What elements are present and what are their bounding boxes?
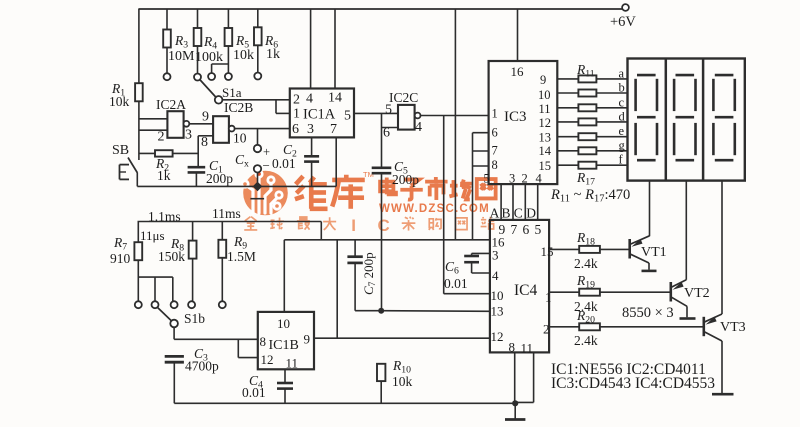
svg-text:10: 10 bbox=[277, 316, 290, 331]
svg-text:d: d bbox=[619, 109, 626, 123]
ground bbox=[680, 317, 696, 320]
wire bbox=[173, 327, 175, 339]
display DS1 (3-digit seven-segment) bbox=[628, 59, 745, 181]
svg-text:11μs: 11μs bbox=[140, 228, 165, 243]
resistor R9 bbox=[218, 222, 255, 265]
svg-text:Cx: Cx bbox=[235, 152, 249, 169]
svg-text:S1b: S1b bbox=[184, 311, 205, 326]
svg-text:910: 910 bbox=[110, 251, 131, 266]
node A bbox=[490, 206, 500, 221]
ground bbox=[712, 393, 734, 396]
svg-text:10: 10 bbox=[491, 288, 504, 303]
resistor R15 body bbox=[557, 133, 628, 140]
wire bbox=[221, 258, 223, 301]
svg-text:9: 9 bbox=[202, 110, 209, 125]
svg-text:11: 11 bbox=[521, 341, 534, 356]
svg-text:14: 14 bbox=[328, 91, 342, 106]
svg-text:0.01: 0.01 bbox=[242, 385, 266, 400]
wire pin 8 IC2B bbox=[198, 136, 213, 167]
svg-text:IC3:CD4543 IC4:CD4553: IC3:CD4543 IC4:CD4553 bbox=[551, 375, 715, 392]
svg-text:7: 7 bbox=[492, 144, 498, 158]
resistor R7 bbox=[110, 222, 142, 267]
label segment f bbox=[619, 153, 624, 167]
svg-text:9: 9 bbox=[304, 332, 311, 347]
wire pin 11 IC1B bbox=[284, 369, 286, 383]
wire bbox=[380, 381, 382, 403]
resistor R6 bbox=[254, 9, 280, 62]
wire digit 3 common bbox=[721, 181, 723, 314]
switch S1b contact 2 bbox=[152, 301, 159, 308]
svg-text:5: 5 bbox=[484, 172, 490, 186]
ground bbox=[642, 270, 657, 273]
switch S1b wiper bbox=[158, 308, 206, 328]
svg-text:12: 12 bbox=[491, 329, 504, 344]
resistor R8 bbox=[158, 222, 197, 265]
label segment a bbox=[619, 66, 625, 80]
resistor R11 body bbox=[557, 75, 628, 82]
wire bbox=[250, 198, 264, 200]
op-amp U-IC2B (NAND gate IC2B) bbox=[201, 100, 253, 150]
svg-text:VT2: VT2 bbox=[684, 286, 710, 301]
resistor R11 bbox=[576, 62, 595, 79]
svg-text:C: C bbox=[378, 216, 390, 235]
svg-text:8: 8 bbox=[201, 135, 208, 150]
junction bbox=[512, 400, 518, 406]
label segment g bbox=[619, 138, 626, 152]
switch SB (push-button) bbox=[112, 143, 138, 186]
svg-text:0.01: 0.01 bbox=[444, 276, 468, 291]
wire pin 13 IC4 bbox=[381, 310, 490, 313]
switch S1a contact 1 bbox=[164, 73, 171, 80]
resistor R3 bbox=[163, 9, 195, 64]
svg-text:100k: 100k bbox=[195, 50, 223, 65]
resistor R5 bbox=[225, 9, 254, 63]
wire pins 6-7-8 IC3 bracket bbox=[473, 133, 489, 240]
svg-text:4700p: 4700p bbox=[185, 359, 219, 374]
ground bbox=[505, 403, 525, 419]
svg-text:200p: 200p bbox=[392, 172, 419, 187]
transistor VT2 bbox=[671, 280, 710, 307]
svg-text:R3: R3 bbox=[174, 33, 188, 50]
svg-text:1k: 1k bbox=[157, 168, 171, 183]
svg-text:13: 13 bbox=[539, 131, 552, 145]
svg-text:IC2C: IC2C bbox=[389, 90, 418, 105]
svg-text:8: 8 bbox=[260, 334, 267, 349]
wire pin 8 IC4 bbox=[514, 352, 516, 403]
svg-text:3: 3 bbox=[492, 248, 499, 263]
svg-text:SB: SB bbox=[112, 143, 129, 158]
svg-text:8: 8 bbox=[509, 340, 516, 355]
label 11us bbox=[140, 228, 165, 243]
wire bbox=[137, 185, 336, 187]
svg-text:6: 6 bbox=[492, 126, 498, 140]
svg-text:C6: C6 bbox=[445, 259, 459, 276]
op-amp U-IC1B (timer IC1B) bbox=[258, 312, 314, 371]
label segment d bbox=[619, 109, 626, 123]
wire pin 4 IC2C output to pin 1 IC3 bbox=[420, 115, 489, 117]
label segment c bbox=[619, 95, 625, 109]
wire bbox=[138, 101, 140, 160]
wire to pin 12 IC1B bbox=[238, 339, 257, 357]
label parts list line 1 bbox=[551, 361, 706, 378]
switch S1a contact 3 bbox=[208, 73, 215, 80]
wire bbox=[648, 263, 650, 270]
node C bbox=[514, 206, 523, 221]
svg-text:10k: 10k bbox=[392, 374, 413, 389]
wire pin 10 IC1B bbox=[283, 240, 285, 312]
svg-text:e: e bbox=[619, 124, 625, 138]
svg-text:3: 3 bbox=[509, 172, 515, 186]
resistor R17 body bbox=[557, 162, 628, 169]
wire bbox=[192, 259, 194, 302]
svg-text:VT1: VT1 bbox=[641, 245, 667, 260]
wire bbox=[212, 46, 229, 73]
wire bbox=[197, 46, 199, 74]
svg-text:2: 2 bbox=[158, 130, 165, 145]
capacitor C4 bbox=[242, 373, 293, 403]
op-amp U-IC2A (NAND gate IC2A) bbox=[156, 97, 192, 145]
wire pin 9 IC1B to pin 12 IC4 bbox=[314, 337, 490, 339]
wire bbox=[381, 173, 383, 311]
svg-text:8550 × 3: 8550 × 3 bbox=[622, 305, 674, 321]
wire IC2C output to pin 10 IC4 bbox=[444, 116, 490, 294]
svg-text:g: g bbox=[619, 138, 626, 152]
svg-text:2.4k: 2.4k bbox=[574, 333, 598, 348]
switch S1a contact 4 bbox=[225, 73, 232, 80]
svg-text:1.5M: 1.5M bbox=[227, 249, 256, 264]
svg-text:7: 7 bbox=[511, 222, 518, 237]
op-amp U-IC4 (counter IC4) bbox=[490, 220, 554, 356]
capacitor C6 bbox=[444, 253, 490, 291]
wire BCD B bbox=[512, 184, 514, 220]
svg-text:11ms: 11ms bbox=[212, 206, 241, 221]
svg-text:16: 16 bbox=[511, 64, 525, 79]
svg-text:S1a: S1a bbox=[222, 85, 242, 100]
resistor R10 bbox=[377, 358, 413, 389]
wire +6V distribution rail bbox=[284, 239, 490, 241]
wire digit 2 common bbox=[685, 181, 687, 280]
svg-text:6: 6 bbox=[292, 122, 299, 137]
svg-text:3: 3 bbox=[307, 122, 314, 137]
resistor R4 bbox=[194, 9, 223, 65]
svg-text:+6V: +6V bbox=[610, 14, 636, 30]
svg-text:7: 7 bbox=[330, 122, 337, 137]
wire bbox=[336, 240, 338, 338]
resistor R1 bbox=[109, 81, 143, 109]
svg-text:150k: 150k bbox=[158, 249, 185, 264]
svg-text:c: c bbox=[619, 95, 625, 109]
resistor R17 label bbox=[576, 170, 595, 187]
capacitor C3 bbox=[165, 346, 219, 403]
wire pin 16 IC3 bbox=[517, 9, 519, 61]
svg-text:200p: 200p bbox=[206, 171, 233, 186]
svg-text:B: B bbox=[502, 206, 511, 221]
svg-text:10: 10 bbox=[233, 131, 247, 146]
svg-text:0.01: 0.01 bbox=[272, 156, 296, 171]
svg-text:5: 5 bbox=[344, 109, 351, 124]
wire bbox=[138, 9, 140, 83]
op-amp U-IC2C (NAND gate IC2C) bbox=[383, 90, 422, 141]
svg-text:C: C bbox=[514, 206, 523, 221]
svg-text:10k: 10k bbox=[109, 94, 130, 109]
transistor VT3 bbox=[704, 314, 746, 341]
label parts list line 2 bbox=[551, 375, 715, 392]
wire pin 4 IC1A bbox=[310, 9, 312, 89]
svg-text:A: A bbox=[490, 206, 500, 221]
svg-text:2.4k: 2.4k bbox=[574, 256, 598, 271]
svg-text:IC1B: IC1B bbox=[269, 338, 299, 353]
label Cx bbox=[235, 152, 249, 169]
resistor R13 body bbox=[557, 104, 628, 111]
svg-text:10k: 10k bbox=[233, 48, 254, 63]
wire bbox=[257, 45, 259, 72]
capacitor C2 bbox=[272, 137, 319, 186]
svg-text:4: 4 bbox=[536, 172, 543, 186]
svg-text:9: 9 bbox=[540, 73, 546, 87]
switch S1a contact 2 bbox=[194, 74, 201, 81]
wire node pins 1-2 IC1A bbox=[276, 100, 290, 114]
wire pins 5-6 tie IC2C bbox=[382, 113, 399, 127]
label 11ms bbox=[212, 206, 241, 221]
junction node pin 13 IC4 bbox=[378, 308, 384, 314]
wire range rail bbox=[138, 222, 322, 240]
node D bbox=[526, 206, 536, 221]
label R11~R17 values bbox=[550, 187, 630, 205]
wire bbox=[381, 128, 383, 168]
wire pin 5 IC1A to IC2C bbox=[354, 112, 398, 114]
wire +6V top rail bbox=[138, 8, 625, 10]
junction bbox=[253, 182, 263, 192]
svg-text:−: − bbox=[263, 158, 270, 173]
wire BCD A bbox=[500, 184, 502, 220]
capacitor C5 bbox=[372, 159, 420, 187]
wire pin 14 IC1A bbox=[334, 9, 336, 89]
switch S1b contact 5 bbox=[219, 301, 226, 308]
switch S1b contact 1 bbox=[135, 301, 142, 308]
svg-text:11: 11 bbox=[286, 356, 299, 371]
wire bbox=[138, 260, 173, 301]
wire BCD D bbox=[537, 184, 539, 220]
terminal +6V bbox=[610, 4, 636, 30]
svg-text:R4: R4 bbox=[203, 34, 217, 51]
svg-text:C7 200p: C7 200p bbox=[361, 252, 378, 295]
label 8550 x 3 bbox=[622, 305, 674, 321]
resistor R16 body bbox=[557, 147, 628, 154]
svg-text:R10: R10 bbox=[392, 358, 411, 375]
svg-text:2: 2 bbox=[522, 172, 528, 186]
transistor VT1 bbox=[630, 236, 667, 263]
svg-text:14: 14 bbox=[539, 144, 552, 158]
wire bbox=[139, 129, 168, 131]
switch S1a contact 5 bbox=[254, 73, 261, 80]
svg-text:13: 13 bbox=[491, 304, 504, 319]
capacitor C1 bbox=[188, 158, 234, 186]
wire bbox=[189, 123, 213, 125]
switch S1b contact 3 bbox=[171, 301, 178, 308]
wire ground rail bbox=[174, 402, 515, 404]
svg-text:IC1A: IC1A bbox=[303, 107, 336, 123]
svg-text:8: 8 bbox=[492, 158, 498, 172]
svg-text:IC2A: IC2A bbox=[156, 97, 186, 112]
wire digit 1 common bbox=[649, 181, 651, 237]
svg-text:5: 5 bbox=[535, 222, 542, 237]
svg-text:b: b bbox=[619, 81, 625, 95]
svg-text:4: 4 bbox=[492, 268, 499, 283]
capacitor C7 bbox=[347, 240, 381, 311]
label 1.1ms bbox=[148, 209, 181, 224]
svg-text:10: 10 bbox=[538, 88, 551, 102]
wire +6V drop bbox=[454, 9, 456, 240]
svg-text:1.1ms: 1.1ms bbox=[148, 209, 181, 224]
op-amp U-IC1A (timer IC1A) bbox=[290, 89, 354, 138]
svg-text:12: 12 bbox=[261, 352, 274, 367]
wire pin 10 IC2B to pin 6 IC1A bbox=[234, 128, 290, 130]
wire bbox=[222, 99, 276, 101]
svg-text:2: 2 bbox=[543, 322, 550, 337]
svg-text:R11 ~ R17:470: R11 ~ R17:470 bbox=[550, 187, 630, 205]
switch S1a wiper bbox=[200, 80, 242, 104]
resistor R18 bbox=[549, 230, 629, 271]
svg-text:5: 5 bbox=[385, 103, 392, 118]
node Cx+ terminal bbox=[254, 129, 270, 159]
wire bbox=[166, 48, 168, 74]
svg-text:+: + bbox=[263, 145, 270, 159]
label segment b bbox=[619, 81, 625, 95]
svg-text:VT3: VT3 bbox=[720, 320, 746, 335]
node Cx- terminal bbox=[254, 158, 270, 186]
svg-text:15: 15 bbox=[541, 244, 554, 259]
svg-text:3: 3 bbox=[185, 128, 192, 143]
label segment e bbox=[619, 124, 625, 138]
resistor R20 bbox=[549, 308, 704, 348]
svg-text:1k: 1k bbox=[266, 47, 280, 62]
switch S1b contact 4 bbox=[188, 301, 195, 308]
svg-text:1: 1 bbox=[492, 107, 498, 121]
svg-text:4: 4 bbox=[306, 92, 313, 107]
wire pin 7 IC1A bbox=[335, 137, 337, 186]
svg-text:4: 4 bbox=[415, 120, 422, 135]
svg-text:IC3: IC3 bbox=[504, 109, 527, 125]
svg-text:11: 11 bbox=[539, 102, 551, 116]
wire bbox=[686, 306, 688, 317]
svg-text:10M: 10M bbox=[168, 49, 195, 64]
svg-text:a: a bbox=[619, 66, 625, 80]
wire bbox=[721, 341, 723, 393]
wire bbox=[139, 118, 168, 120]
resistor R19 bbox=[549, 273, 671, 314]
svg-text:I: I bbox=[351, 216, 356, 235]
wire BCD C bbox=[524, 184, 526, 220]
svg-text:IC4: IC4 bbox=[514, 282, 538, 299]
resistor R12 body bbox=[557, 90, 628, 97]
svg-text:1: 1 bbox=[293, 107, 300, 122]
svg-text:IC2B: IC2B bbox=[224, 100, 253, 115]
svg-text:12: 12 bbox=[539, 116, 552, 130]
node B bbox=[502, 206, 511, 221]
svg-text:R18: R18 bbox=[576, 230, 595, 247]
svg-text:R7: R7 bbox=[113, 235, 127, 252]
svg-text:R19: R19 bbox=[576, 273, 595, 290]
wire to pin 8 IC1B bbox=[174, 338, 258, 340]
op-amp U-IC3 (decoder IC3) bbox=[484, 61, 558, 186]
svg-text:6: 6 bbox=[523, 222, 530, 237]
svg-text:D: D bbox=[526, 206, 536, 221]
svg-text:2: 2 bbox=[293, 93, 300, 108]
resistor R2 bbox=[139, 150, 198, 183]
wire pin 11 IC4 bbox=[515, 352, 533, 402]
resistor R14 body bbox=[557, 118, 628, 125]
svg-text:R17: R17 bbox=[576, 170, 595, 187]
